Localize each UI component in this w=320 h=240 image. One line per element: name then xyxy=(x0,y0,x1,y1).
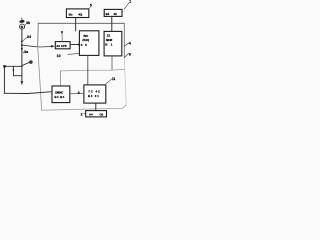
svg-text:10: 10 xyxy=(57,54,61,58)
wire B1 to B3 xyxy=(75,18,77,31)
box B1 control xyxy=(66,9,88,18)
svg-text:B4: B4 xyxy=(106,12,110,16)
wire arrow to box 9 xyxy=(22,45,51,47)
wire right rail upper xyxy=(123,23,125,58)
leader 2 xyxy=(84,112,86,114)
node dot terminal junction xyxy=(21,65,23,67)
box U9 discriminator xyxy=(55,42,70,49)
leader 9 xyxy=(61,34,63,41)
svg-text:4: 4 xyxy=(129,42,131,46)
svg-text:7#V: 7#V xyxy=(83,34,88,38)
svg-text:B 1: B 1 xyxy=(105,43,113,47)
svg-text:2: 2 xyxy=(81,113,83,117)
switch 3a contact xyxy=(30,61,33,64)
switch 3a arm xyxy=(22,62,30,65)
svg-text:6: 6 xyxy=(129,53,131,57)
leader 4 xyxy=(124,43,128,47)
leader 10 xyxy=(68,53,79,56)
box B4 mid right xyxy=(104,31,122,56)
svg-text:Z14Q: Z14Q xyxy=(82,38,90,42)
wire B6 to B7 xyxy=(95,103,97,111)
svg-text:A0 CP5: A0 CP5 xyxy=(56,44,67,48)
sensor 3b bulb top ellipse xyxy=(21,18,23,20)
box B5 bottom left xyxy=(52,86,70,103)
leader 6 xyxy=(124,53,128,57)
wire terminal to rail xyxy=(5,65,22,67)
wire long vertical bus left xyxy=(37,23,40,47)
svg-text:A4: A4 xyxy=(89,113,93,117)
svg-text:4B4#: 4B4# xyxy=(106,38,113,42)
svg-text:11: 11 xyxy=(112,77,116,81)
wire B5 top stub xyxy=(60,71,62,86)
wire bottom feed to B5 xyxy=(4,92,52,94)
leader 3b xyxy=(24,24,26,25)
box B3 mid left xyxy=(79,31,99,56)
svg-text:D2: D2 xyxy=(100,113,104,117)
wire B4 stub down xyxy=(111,56,113,70)
sensor 3b inner blob xyxy=(21,26,24,29)
svg-text:3b: 3b xyxy=(26,21,30,25)
leader 1 xyxy=(124,2,129,9)
wire cross y70 xyxy=(61,69,125,71)
sensor 3b body circle xyxy=(20,24,25,29)
svg-text:Bu: Bu xyxy=(69,12,73,16)
leader 34 xyxy=(23,38,27,42)
wire rail x22 xyxy=(21,29,23,66)
box B6 bottom right xyxy=(84,85,106,103)
wire left rail down xyxy=(3,66,5,93)
wire L loop left xyxy=(12,66,14,75)
svg-text:34: 34 xyxy=(27,35,31,39)
wire rail to arrow xyxy=(21,66,23,81)
svg-text:B4 B4: B4 B4 xyxy=(54,95,64,99)
svg-text:-3a: -3a xyxy=(23,50,28,54)
leader 11 xyxy=(106,79,112,84)
svg-text:8: 8 xyxy=(78,91,80,95)
wire right rail lower faint xyxy=(124,58,126,105)
node dot at B3 input xyxy=(78,44,80,46)
svg-text:0 5: 0 5 xyxy=(81,43,88,47)
svg-text:9: 9 xyxy=(61,30,63,34)
box B7 small bottom xyxy=(86,111,107,117)
node dot rail mid xyxy=(21,44,23,46)
svg-text:1: 1 xyxy=(129,0,131,4)
wire U9 to B3 xyxy=(70,43,80,45)
arrowhead down xyxy=(21,81,24,85)
arrowhead into box 9 xyxy=(51,45,55,48)
svg-text:Z1: Z1 xyxy=(107,33,111,37)
wire bottom return bus xyxy=(42,105,127,110)
node dot cross xyxy=(87,70,88,71)
wire B5 to B6 xyxy=(70,93,84,95)
node dot rail upper xyxy=(21,41,23,43)
wire B2 to B4 xyxy=(111,16,113,31)
valve mark triangle xyxy=(12,70,14,73)
wire B3 to B6 xyxy=(87,55,89,85)
wire top bus xyxy=(38,22,124,24)
wire L loop bottom xyxy=(13,75,22,77)
svg-text:B4 01: B4 01 xyxy=(88,94,100,98)
leader 5 xyxy=(89,7,91,9)
terminal square xyxy=(3,65,6,68)
node dot 3a xyxy=(21,48,23,50)
box B2 top right xyxy=(104,9,122,16)
